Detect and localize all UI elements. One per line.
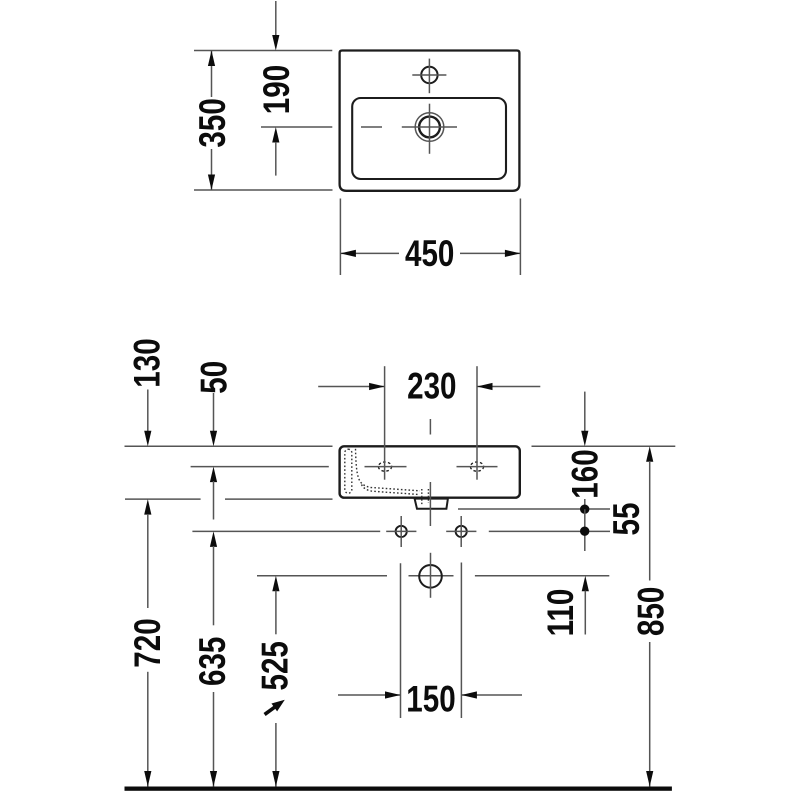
dimension 55 bbox=[580, 503, 648, 551]
wall line at rim height bbox=[125, 445, 333, 447]
svg-text:150: 150 bbox=[406, 679, 455, 720]
dim 55 end dot bbox=[580, 527, 589, 536]
dim 50 tail below bbox=[213, 481, 215, 520]
dim 230 tail right bbox=[477, 386, 540, 388]
dimension 50 bbox=[194, 361, 235, 520]
fixing hole left (front view) bbox=[396, 526, 407, 537]
dim 720 arrow down bbox=[144, 771, 151, 787]
dim 450 line left bbox=[340, 252, 399, 254]
siphon crosshair vertical bbox=[430, 553, 432, 598]
extension line right (450 dim) bbox=[519, 199, 521, 276]
drain crosshair vertical bbox=[429, 104, 431, 154]
dim 160 arrow down bbox=[581, 431, 588, 447]
svg-text:50: 50 bbox=[194, 361, 235, 394]
svg-text:230: 230 bbox=[407, 366, 456, 407]
dim 160 end dot bbox=[580, 505, 589, 514]
dim 230 arrow left bbox=[477, 383, 493, 390]
fixing hole left crosshair vertical bbox=[400, 516, 402, 547]
dim 850 arrow down bbox=[646, 771, 653, 787]
dim 50 arrow down bbox=[210, 431, 217, 447]
svg-text:635: 635 bbox=[193, 637, 234, 686]
fixing hole right (front view) bbox=[456, 526, 467, 537]
dim 525 line upper bbox=[275, 591, 277, 635]
extension line right tap hole (230 dim) bbox=[476, 366, 478, 480]
dim 150 tail left bbox=[338, 694, 401, 696]
dim 635 arrow down bbox=[210, 771, 217, 787]
drain centerline dash inside bowl bbox=[361, 126, 382, 128]
dimension 525 bbox=[256, 576, 297, 787]
basin bottom line left b (130 dim) bbox=[225, 498, 333, 500]
siphon hole (front view) bbox=[419, 565, 442, 588]
dim 50 arrow up bbox=[210, 467, 217, 483]
extension line left tap hole (230 dim) bbox=[384, 366, 386, 480]
dim 230 tail left bbox=[318, 386, 384, 388]
svg-text:190: 190 bbox=[257, 65, 298, 114]
dim 350 line upper bbox=[211, 51, 213, 98]
dim 850 line upper bbox=[649, 461, 651, 581]
tap hole left (front view, dashed) bbox=[378, 462, 391, 471]
basin bottom line left a (130 dim) bbox=[125, 498, 201, 500]
dimension 190 bbox=[257, 1, 298, 176]
dimension 130 bbox=[127, 338, 168, 514]
tap hole left crosshair horizontal bbox=[365, 466, 407, 468]
dimension 450 bbox=[340, 234, 520, 275]
siphon line left (525 dim) bbox=[257, 575, 387, 577]
svg-text:160: 160 bbox=[566, 449, 607, 498]
hidden drain pipe left (dotted) bbox=[421, 489, 423, 506]
dimension 160 bbox=[566, 392, 607, 514]
fixing line left (635 dim) bbox=[192, 530, 380, 532]
siphon line right (110 dim) bbox=[475, 575, 609, 577]
svg-text:110: 110 bbox=[541, 589, 582, 637]
basin outer rim (top view) bbox=[340, 51, 520, 191]
dim 350 arrow down bbox=[208, 175, 215, 191]
dim 130 arrow up bbox=[144, 499, 151, 514]
dim 850 arrow up bbox=[646, 446, 653, 462]
svg-text:130: 130 bbox=[127, 338, 168, 387]
fixing hole right crosshair horizontal bbox=[446, 530, 476, 532]
dim 50 tail above bbox=[213, 393, 215, 432]
tap hole line left (50 dim) bbox=[191, 466, 329, 468]
dimension 850 bbox=[631, 446, 672, 786]
dim 190 arrow up bbox=[272, 127, 279, 143]
drain inner circle (top view) bbox=[419, 117, 440, 138]
tap hole right crosshair horizontal bbox=[457, 466, 498, 468]
dim 150 arrow left bbox=[461, 691, 477, 698]
hidden bowl inner surface (dotted lower) bbox=[362, 485, 420, 495]
hidden bowl left wall section (dotted slot) bbox=[345, 449, 352, 493]
fixing hole left crosshair horizontal bbox=[386, 530, 416, 532]
dimension 635 bbox=[193, 531, 234, 786]
dim 55 line between dots bbox=[584, 509, 586, 551]
basin body (front view) bbox=[340, 446, 520, 497]
hidden bowl inner surface (dotted upper) bbox=[356, 449, 421, 491]
dim 150 tail right bbox=[461, 694, 522, 696]
extension line left (450 dim) bbox=[339, 199, 341, 276]
extension line top edge (350 dim) bbox=[194, 50, 332, 52]
dim 230 arrow right bbox=[369, 383, 385, 390]
tap hole right (front view, dashed) bbox=[470, 462, 483, 471]
tap hole crosshair vertical bbox=[428, 59, 430, 94]
dim 110 arrow up bbox=[582, 576, 589, 592]
dim 160 tail above bbox=[584, 392, 586, 433]
dim 635 arrow up bbox=[210, 531, 217, 547]
dim 130 tail above bbox=[147, 390, 149, 433]
dim 720 line lower bbox=[147, 672, 149, 787]
dimension 720 bbox=[128, 514, 169, 787]
extension line left fixing hole (150 dim) bbox=[400, 563, 402, 718]
extension line drain center (190 dim) bbox=[261, 126, 332, 128]
tap hole (top view) bbox=[421, 67, 437, 83]
dim 160 line to dot bbox=[584, 499, 586, 509]
extension line bottom edge (350 dim) bbox=[194, 189, 333, 191]
dimension 350 bbox=[193, 51, 234, 191]
drain outlet bottom line (160 dim) bbox=[458, 508, 610, 510]
dim 450 arrow right bbox=[505, 250, 521, 257]
fixing line right (55 dim) bbox=[489, 530, 610, 532]
dim 635 line lower bbox=[213, 692, 215, 787]
svg-text:55: 55 bbox=[607, 503, 648, 536]
dim 350 line lower bbox=[211, 149, 213, 190]
floor line bbox=[125, 787, 672, 791]
dim 525 arrow down bbox=[272, 771, 279, 787]
extension line right fixing hole (150 dim) bbox=[460, 563, 462, 719]
dim 850 line lower bbox=[649, 642, 651, 787]
dim 450 arrow left bbox=[340, 250, 356, 257]
drain outlet (front view) bbox=[415, 499, 448, 509]
drain crosshair horizontal bbox=[402, 126, 457, 128]
dimension 230 bbox=[318, 366, 540, 407]
dim 190 tail above bbox=[275, 1, 277, 36]
dimension 110 bbox=[541, 576, 589, 637]
dim 190 arrow down bbox=[272, 35, 279, 51]
dim 525 oblique arrow bbox=[262, 696, 288, 718]
dim 130 arrow down bbox=[144, 431, 151, 447]
siphon crosshair horizontal bbox=[409, 575, 454, 577]
svg-text:850: 850 bbox=[631, 587, 672, 636]
basin inner bowl (top view) bbox=[352, 98, 506, 179]
dim 110 tail below bbox=[584, 591, 586, 635]
dim 525 line lower bbox=[275, 723, 277, 787]
fixing hole right crosshair vertical bbox=[460, 516, 462, 547]
dim 720 line upper bbox=[147, 514, 149, 608]
tap hole crosshair horizontal bbox=[412, 74, 446, 76]
dim 350 arrow up bbox=[208, 51, 215, 67]
wall line at rim height right part bbox=[532, 445, 676, 447]
dim 190 tail below bbox=[275, 142, 277, 176]
dimension 150 bbox=[338, 679, 522, 720]
centerline above basin bbox=[429, 419, 431, 435]
svg-text:720: 720 bbox=[128, 618, 169, 667]
svg-text:525: 525 bbox=[256, 641, 297, 690]
drain outer circle (top view) bbox=[415, 113, 444, 142]
svg-text:350: 350 bbox=[193, 98, 234, 147]
centerline through drain outlet bbox=[429, 482, 431, 526]
svg-text:450: 450 bbox=[405, 234, 454, 275]
dim 635 line upper bbox=[213, 546, 215, 625]
dim 450 line right bbox=[460, 252, 520, 254]
hidden drain pipe right (dotted) bbox=[427, 489, 429, 503]
dim 525 arrow up bbox=[272, 576, 279, 592]
dim 150 arrow right bbox=[385, 691, 401, 698]
